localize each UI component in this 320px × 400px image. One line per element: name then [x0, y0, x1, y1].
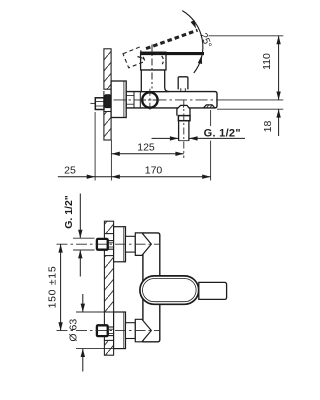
shower pipe centerline: [183, 100, 185, 159]
top inlet: threaded stub: [108, 241, 114, 250]
svg-text:25: 25: [64, 164, 76, 176]
25 degree swing arc: [182, 11, 203, 73]
top cone connector: [135, 233, 151, 256]
extension line pipe end: [94, 112, 96, 181]
spout outlet dome (under right end of body): [203, 105, 215, 108]
svg-text:170: 170: [145, 164, 163, 176]
diverter button on body: [178, 77, 188, 90]
main horizontal centerline: [114, 99, 218, 101]
extension line wall face: [110, 140, 112, 181]
handle centerline (vertical dash-dot): [151, 45, 153, 89]
union divisions between escutcheon and body: [126, 92, 140, 108]
body horizontal spout outline: [126, 92, 217, 108]
G. 1/2" dimension lower: [79, 194, 81, 239]
lever ghost (raised 25, dashed): [146, 30, 198, 48]
extension line top (for 110): [209, 35, 284, 37]
svg-text:G. 1/2": G. 1/2": [63, 195, 75, 229]
dimension 150 +-15: [60, 244, 62, 330]
cartridge tower: [141, 70, 169, 92]
diameter 63 dimension: [82, 294, 84, 312]
bottom cone connector: [135, 319, 151, 342]
handle pivot block: [141, 52, 166, 70]
centerline top connection: [57, 243, 161, 245]
shower outlet pipe G1/2: [179, 121, 189, 141]
top escutcheon: [114, 227, 126, 262]
G. 1/2" callout upper: [152, 137, 179, 139]
handle stadium: [140, 276, 199, 304]
svg-text:110: 110: [261, 53, 273, 70]
supply pipe centerline tick: [90, 102, 95, 104]
shower outlet nut band: [178, 116, 190, 121]
wall section (hatched) lower view: [104, 221, 113, 355]
centerline bottom connection: [57, 330, 161, 332]
wall section (hatched) upper view: [104, 49, 111, 140]
handle grip: [199, 282, 227, 299]
bottom neck: [126, 323, 136, 339]
body column: [143, 233, 160, 342]
dimension 25 / 170: [58, 176, 95, 178]
bottom escutcheon: [114, 312, 126, 349]
shower outlet cap (below body): [177, 105, 190, 115]
svg-text:Ø 63: Ø 63: [67, 319, 79, 342]
supply pipe (wall union tail): [95, 98, 104, 110]
cartridge screw circle: [142, 92, 157, 107]
ghost pivot block dashed: [123, 47, 145, 68]
svg-text:G. 1/2": G. 1/2": [204, 128, 241, 140]
top neck: [126, 236, 136, 252]
ghost marks inside pivot: [156, 54, 163, 64]
lever (solid position): [141, 52, 204, 55]
bottom inlet: nut: [97, 325, 108, 336]
union nut (dark): [104, 95, 111, 108]
svg-text:150 ±15: 150 ±15: [46, 266, 58, 309]
top inlet: nut: [97, 239, 108, 250]
extension line from spout outlet center: [210, 110, 212, 126]
svg-text:18: 18: [262, 121, 274, 133]
dimension 125: [111, 153, 183, 155]
dimension 18: [278, 109, 280, 136]
svg-text:125: 125: [137, 142, 155, 154]
extension line bottom of body (for 18): [217, 108, 283, 110]
escutcheon (side view): [111, 81, 126, 118]
bottom inlet: threaded stub: [108, 327, 114, 336]
dimension 110: [278, 36, 280, 100]
